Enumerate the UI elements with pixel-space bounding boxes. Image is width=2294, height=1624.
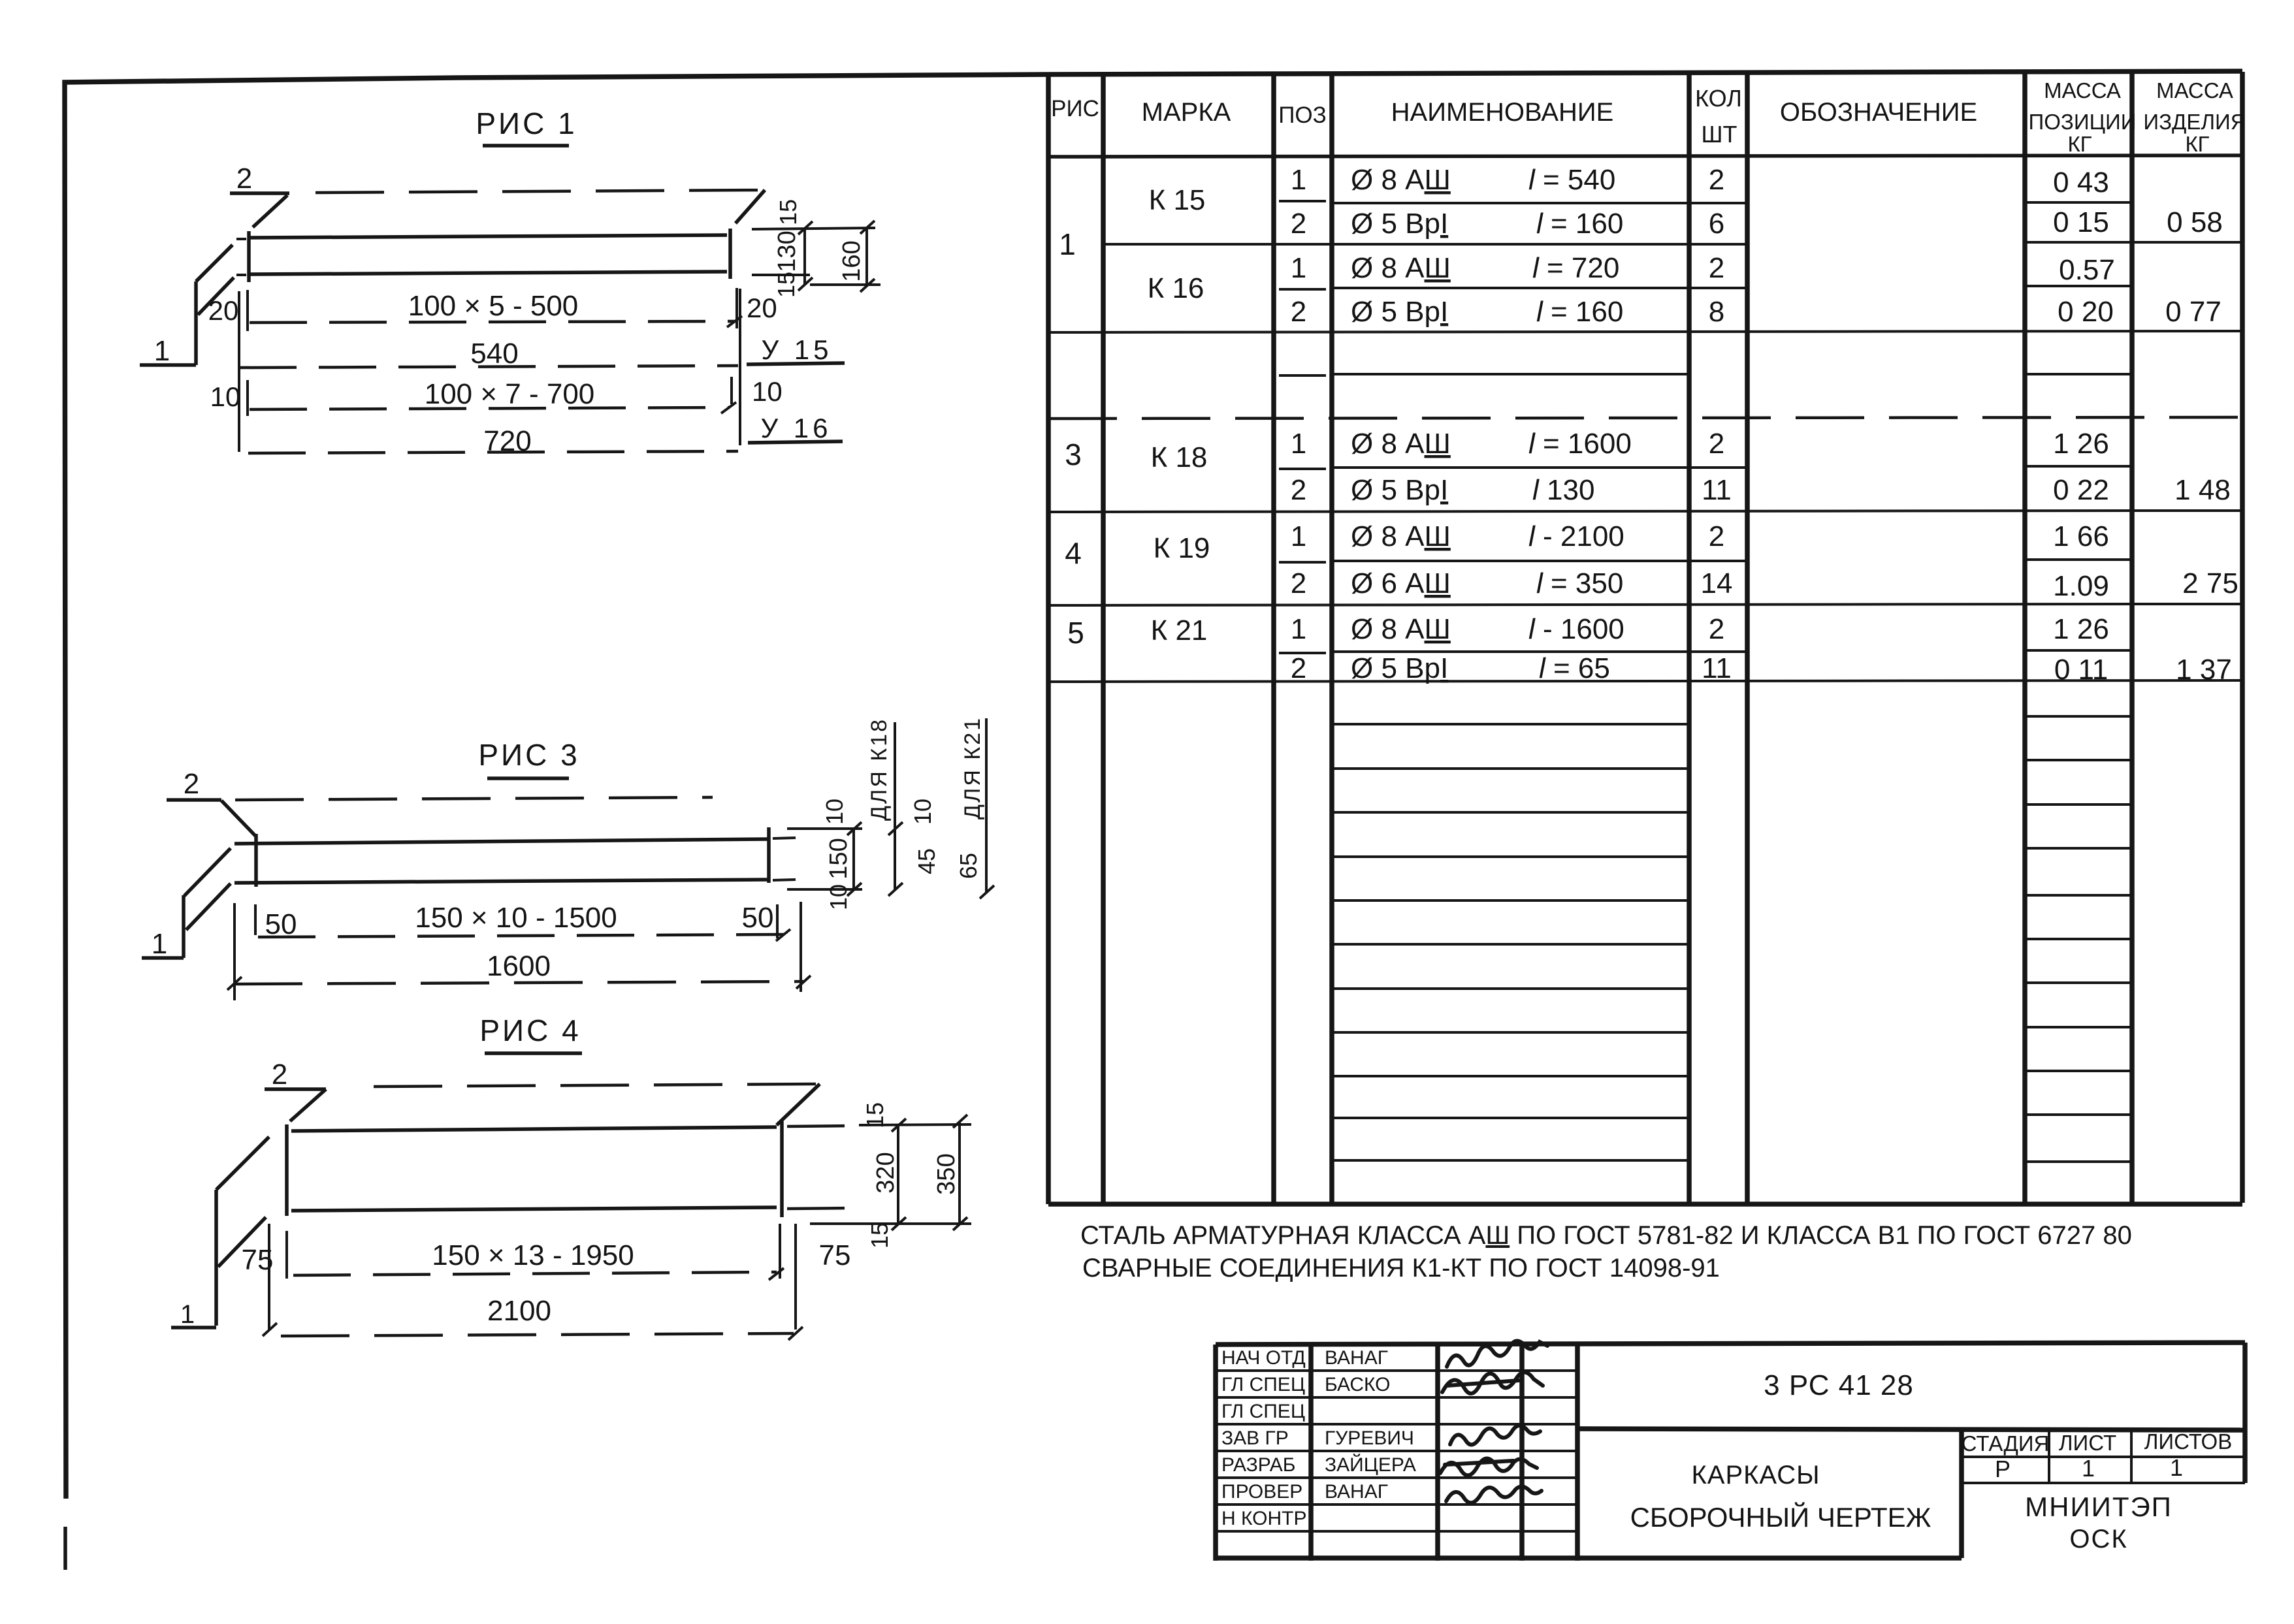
svg-text:Ø 8 АШ: Ø 8 АШ <box>1351 613 1451 645</box>
svg-text:150 × 13 - 1950: 150 × 13 - 1950 <box>432 1239 634 1271</box>
svg-text:Ø 5 ВрI: Ø 5 ВрI <box>1351 296 1448 328</box>
svg-text:Ø 8 АШ: Ø 8 АШ <box>1351 252 1451 284</box>
svg-text:130: 130 <box>773 231 801 272</box>
svg-text:100 × 5 - 500: 100 × 5 - 500 <box>408 290 579 322</box>
svg-text:МНИИТЭП: МНИИТЭП <box>2025 1491 2173 1522</box>
svg-text:БАСКО: БАСКО <box>1325 1374 1391 1395</box>
svg-text:1: 1 <box>2170 1454 2183 1481</box>
svg-text:К 18: К 18 <box>1151 441 1208 473</box>
svg-text:l - 2100: l - 2100 <box>1528 520 1624 552</box>
svg-text:ДЛЯ К18: ДЛЯ К18 <box>867 718 892 821</box>
svg-text:ВАНАГ: ВАНАГ <box>1325 1481 1388 1503</box>
svg-text:1 48: 1 48 <box>2174 474 2231 506</box>
svg-text:15: 15 <box>866 1222 893 1249</box>
svg-text:РИС: РИС <box>1051 96 1099 121</box>
svg-text:0 58: 0 58 <box>2167 206 2223 238</box>
svg-text:ЛИСТ: ЛИСТ <box>2059 1431 2116 1455</box>
svg-text:2: 2 <box>272 1059 287 1091</box>
svg-text:1: 1 <box>152 928 167 960</box>
svg-text:14: 14 <box>1701 567 1733 599</box>
svg-text:0 15: 0 15 <box>2053 206 2109 238</box>
svg-text:Р: Р <box>1995 1456 2011 1482</box>
svg-text:8: 8 <box>1709 296 1724 328</box>
svg-text:НАЧ ОТД: НАЧ ОТД <box>1221 1347 1306 1369</box>
svg-text:К 21: К 21 <box>1151 614 1208 646</box>
svg-text:10: 10 <box>825 884 852 910</box>
svg-text:3 РС 41 28: 3 РС 41 28 <box>1764 1369 1914 1401</box>
svg-text:15: 15 <box>862 1102 888 1128</box>
svg-text:10: 10 <box>909 799 936 825</box>
svg-text:2: 2 <box>1291 208 1306 240</box>
svg-text:4: 4 <box>1065 536 1082 570</box>
svg-text:КОЛ: КОЛ <box>1695 85 1742 112</box>
svg-text:1: 1 <box>154 335 170 367</box>
svg-text:ЗАВ ГР: ЗАВ ГР <box>1221 1427 1289 1449</box>
svg-text:СВАРНЫЕ СОЕДИНЕНИЯ К1-КТ П: СВАРНЫЕ СОЕДИНЕНИЯ К1-КТ ПО ГОСТ 14098-9… <box>1082 1254 1720 1282</box>
svg-text:l = 160: l = 160 <box>1536 208 1623 240</box>
svg-text:КГ: КГ <box>2185 132 2209 156</box>
svg-text:1: 1 <box>1291 613 1306 645</box>
svg-text:Ø 8 АШ: Ø 8 АШ <box>1351 520 1451 552</box>
svg-text:К 15: К 15 <box>1149 184 1206 216</box>
svg-text:У 16: У 16 <box>760 413 832 443</box>
svg-text:2: 2 <box>1291 474 1306 506</box>
svg-text:2: 2 <box>1291 567 1306 599</box>
svg-text:0 43: 0 43 <box>2053 167 2109 199</box>
svg-text:6: 6 <box>1709 208 1724 240</box>
svg-text:Ø 8 АШ: Ø 8 АШ <box>1351 164 1451 196</box>
svg-text:Ø 6 АШ: Ø 6 АШ <box>1351 567 1451 599</box>
svg-text:ГУРЕВИЧ: ГУРЕВИЧ <box>1325 1427 1414 1449</box>
svg-text:l 130: l 130 <box>1532 474 1594 506</box>
svg-text:1: 1 <box>1291 428 1306 460</box>
svg-text:10: 10 <box>821 799 848 825</box>
svg-text:ИЗДЕЛИЯ: ИЗДЕЛИЯ <box>2143 110 2246 134</box>
svg-text:ОБОЗНАЧЕНИЕ: ОБОЗНАЧЕНИЕ <box>1780 98 1977 127</box>
svg-text:75: 75 <box>819 1239 851 1271</box>
svg-text:65: 65 <box>955 853 982 879</box>
svg-text:ЗАЙЦЕРА: ЗАЙЦЕРА <box>1325 1454 1416 1476</box>
svg-text:ГЛ СПЕЦ: ГЛ СПЕЦ <box>1221 1401 1305 1422</box>
svg-text:100 × 7 - 700: 100 × 7 - 700 <box>425 378 595 410</box>
svg-text:ДЛЯ К21: ДЛЯ К21 <box>960 716 985 820</box>
svg-text:45: 45 <box>913 848 940 874</box>
svg-text:ШТ: ШТ <box>1702 121 1737 148</box>
svg-text:2: 2 <box>236 163 252 195</box>
svg-text:НАИМЕНОВАНИЕ: НАИМЕНОВАНИЕ <box>1391 98 1614 127</box>
svg-text:ГЛ СПЕЦ: ГЛ СПЕЦ <box>1221 1374 1305 1395</box>
svg-text:РАЗРАБ: РАЗРАБ <box>1221 1454 1296 1476</box>
svg-text:У 15: У 15 <box>761 334 832 365</box>
svg-text:50: 50 <box>742 902 774 934</box>
svg-text:ПРОВЕР: ПРОВЕР <box>1221 1481 1302 1503</box>
svg-text:1 26: 1 26 <box>2053 428 2109 460</box>
svg-text:СТАДИЯ: СТАДИЯ <box>1962 1431 2050 1456</box>
svg-text:11: 11 <box>1702 652 1732 684</box>
svg-text:МАРКА: МАРКА <box>1142 98 1231 127</box>
svg-text:0 20: 0 20 <box>2058 296 2114 328</box>
svg-text:0 77: 0 77 <box>2165 296 2221 328</box>
svg-text:ПОЗИЦИИ: ПОЗИЦИИ <box>2029 110 2137 134</box>
svg-text:10: 10 <box>752 376 783 407</box>
svg-text:l = 540: l = 540 <box>1528 164 1615 196</box>
svg-text:К 16: К 16 <box>1148 272 1204 304</box>
svg-text:l = 65: l = 65 <box>1539 652 1610 684</box>
svg-text:2: 2 <box>1709 613 1724 645</box>
svg-text:1: 1 <box>180 1300 195 1329</box>
svg-text:160: 160 <box>838 240 865 281</box>
svg-text:1600: 1600 <box>487 950 551 982</box>
svg-text:2100: 2100 <box>487 1295 551 1327</box>
svg-text:КАРКАСЫ: КАРКАСЫ <box>1691 1461 1820 1489</box>
svg-text:1 26: 1 26 <box>2053 613 2109 645</box>
svg-text:ПОЗ: ПОЗ <box>1278 103 1327 128</box>
svg-text:2: 2 <box>1709 428 1724 460</box>
svg-text:2: 2 <box>1709 164 1724 196</box>
svg-text:Ø 5 ВрI: Ø 5 ВрI <box>1351 474 1448 506</box>
svg-text:l = 1600: l = 1600 <box>1528 428 1632 460</box>
svg-text:Ø 8 АШ: Ø 8 АШ <box>1351 428 1451 460</box>
svg-text:0 22: 0 22 <box>2053 474 2109 506</box>
svg-text:3: 3 <box>1065 438 1082 471</box>
svg-text:15: 15 <box>773 272 800 298</box>
svg-text:2: 2 <box>1291 652 1306 684</box>
svg-text:1 37: 1 37 <box>2176 654 2232 686</box>
svg-text:1: 1 <box>1291 252 1306 284</box>
svg-text:15: 15 <box>775 199 801 225</box>
svg-text:Н КОНТР: Н КОНТР <box>1221 1508 1306 1529</box>
svg-text:11: 11 <box>1702 474 1732 506</box>
svg-text:КГ: КГ <box>2067 132 2092 156</box>
svg-text:1.09: 1.09 <box>2053 570 2109 602</box>
svg-text:150: 150 <box>825 838 852 879</box>
svg-text:540: 540 <box>470 338 518 370</box>
svg-text:20: 20 <box>208 295 239 326</box>
svg-text:Ø 5 ВрI: Ø 5 ВрI <box>1351 208 1448 240</box>
svg-text:10: 10 <box>210 381 241 412</box>
svg-text:0 11: 0 11 <box>2054 654 2108 686</box>
svg-text:СБОРОЧНЫЙ ЧЕРТЕЖ: СБОРОЧНЫЙ ЧЕРТЕЖ <box>1630 1501 1931 1533</box>
svg-text:МАССА: МАССА <box>2044 78 2121 103</box>
svg-text:150 × 10 - 1500: 150 × 10 - 1500 <box>415 902 617 934</box>
svg-text:ЛИСТОВ: ЛИСТОВ <box>2144 1429 2232 1454</box>
svg-text:К 19: К 19 <box>1154 532 1210 564</box>
svg-text:l = 720: l = 720 <box>1532 252 1619 284</box>
svg-text:2: 2 <box>1291 296 1306 328</box>
svg-text:l = 160: l = 160 <box>1536 296 1623 328</box>
svg-text:1: 1 <box>1059 227 1076 261</box>
svg-text:5: 5 <box>1067 616 1084 650</box>
svg-text:2 75: 2 75 <box>2182 567 2238 599</box>
svg-text:2: 2 <box>1709 520 1724 552</box>
svg-text:1 66: 1 66 <box>2053 520 2109 552</box>
svg-text:Ø 5 ВрI: Ø 5 ВрI <box>1351 652 1448 684</box>
svg-text:РИС 4: РИС 4 <box>479 1013 581 1047</box>
svg-text:ВАНАГ: ВАНАГ <box>1325 1347 1388 1369</box>
svg-text:1: 1 <box>2082 1455 2095 1482</box>
svg-text:1: 1 <box>1291 164 1306 196</box>
svg-text:320: 320 <box>872 1152 899 1193</box>
svg-text:l = 350: l = 350 <box>1536 567 1623 599</box>
svg-text:СТАЛЬ АРМАТУРНАЯ КЛАССА АШ: СТАЛЬ АРМАТУРНАЯ КЛАССА АШ ПО ГОСТ 5781-… <box>1080 1221 2132 1250</box>
svg-text:ОСК: ОСК <box>2069 1525 2127 1553</box>
svg-text:l - 1600: l - 1600 <box>1528 613 1624 645</box>
svg-text:МАССА: МАССА <box>2156 78 2233 103</box>
svg-text:1: 1 <box>1291 520 1306 552</box>
svg-text:350: 350 <box>933 1153 960 1194</box>
svg-text:0.57: 0.57 <box>2059 254 2115 286</box>
svg-text:РИС 3: РИС 3 <box>478 738 579 772</box>
svg-text:2: 2 <box>1709 252 1724 284</box>
svg-text:2: 2 <box>184 768 199 800</box>
svg-text:РИС 1: РИС 1 <box>476 106 577 140</box>
